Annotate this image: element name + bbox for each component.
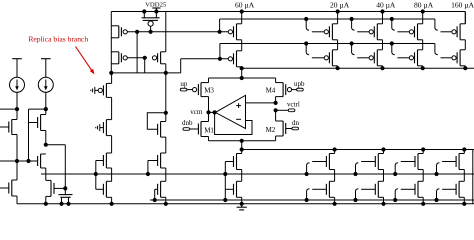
label vcm	[190, 108, 203, 116]
wire drop x144.7	[144, 58, 146, 73]
pmos P3	[152, 52, 165, 73]
wire replica node	[109, 71, 180, 75]
pmos M4	[276, 78, 292, 103]
pmos P13 160uA row2	[452, 50, 468, 70]
nmos N2 20uA row2	[326, 181, 336, 206]
svg-text:VDD25: VDD25	[145, 1, 167, 8]
power VDD25 terminal	[145, 1, 167, 11]
svg-text:20 µA: 20 µA	[330, 1, 350, 10]
ground symbol	[237, 204, 247, 210]
svg-text:60 µA: 60 µA	[235, 1, 255, 10]
pmos P1	[111, 26, 127, 38]
wire NB2 gate	[0, 187, 9, 189]
switch S3b 80uA row2	[390, 41, 410, 57]
switch S5b 20uA nmos row2	[305, 189, 327, 202]
wire opamp top edge	[209, 77, 276, 79]
wire opamp bottom edge	[209, 139, 276, 143]
pmos P6 20uA row1	[324, 9, 340, 49]
port upb	[292, 80, 305, 91]
label 20uA	[330, 1, 350, 10]
wire 60uA row2 gate line	[181, 57, 229, 73]
nmos N7 160uA row1	[456, 147, 466, 181]
wire NBIAS1 rail	[150, 199, 474, 201]
nmos N8 160uA row2	[456, 181, 466, 206]
wire NB3 gate	[29, 122, 38, 124]
wire gate line A	[127, 30, 228, 34]
wire ground rail	[17, 203, 474, 205]
pmos P4 60uA top	[228, 9, 244, 50]
switch S6a 40uA nmos row1	[353, 162, 375, 177]
svg-text:up: up	[180, 80, 188, 88]
nmos NT2 tail row2	[234, 181, 244, 206]
current source I1	[10, 59, 25, 109]
nmos N1 20uA row1	[326, 147, 336, 181]
label 80uA	[414, 1, 434, 10]
switch S7a 80uA nmos row1	[393, 162, 415, 177]
wire bias line 2	[220, 44, 435, 59]
wire amp feedback	[215, 112, 252, 134]
wire NBIAS2 rail	[41, 173, 474, 175]
pmos P10 80uA row1	[409, 9, 425, 49]
label M3	[204, 87, 214, 95]
wire left bias rail	[110, 12, 112, 73]
pmos PR replica grounded-gate	[98, 73, 111, 120]
wire NB2 drain up	[16, 161, 18, 180]
port dn	[286, 119, 300, 130]
wire vctrl tap	[274, 108, 295, 112]
nmos NB2 colA lower	[9, 180, 17, 196]
ground at PR gate	[91, 87, 98, 94]
svg-text:M4: M4	[266, 87, 276, 95]
pmos P11 80uA row2	[409, 50, 425, 70]
switch S1a 20uA row1	[304, 17, 324, 32]
nmos NB4 colB mid	[38, 154, 46, 180]
wire CS1 node	[0, 107, 19, 120]
switch S3a 80uA row1	[390, 17, 410, 32]
label 40uA	[376, 1, 396, 10]
svg-text:160 µA: 160 µA	[451, 1, 474, 10]
svg-text:Replica bias branch: Replica bias branch	[28, 34, 88, 43]
label M4	[266, 87, 276, 95]
pmos P7 20uA row2	[324, 50, 340, 70]
svg-text:upb: upb	[294, 80, 305, 88]
label 60uA	[235, 1, 255, 10]
pmos M3	[193, 78, 209, 112]
wire drain bus bottom	[242, 149, 474, 151]
switch S4a 160uA row1	[435, 19, 452, 32]
nmos NA replica cascode	[103, 120, 111, 153]
svg-text:dn: dn	[292, 119, 300, 127]
wire NG gate tie	[153, 189, 158, 202]
mos-cap C1 on VDD	[142, 9, 160, 33]
nmos N4 40uA row2	[375, 181, 385, 206]
label M2	[266, 126, 276, 134]
switch S8a 160uA nmos row1	[434, 162, 456, 177]
nmos NC diode mid	[158, 122, 166, 138]
wire NC diode loop	[147, 111, 168, 130]
nmos ND mid row1	[158, 153, 166, 181]
ground at NA gate	[96, 124, 104, 131]
label M1	[204, 126, 214, 134]
nmos NT1 tail row1	[234, 150, 242, 182]
nmos NB5 colB row2	[44, 180, 54, 206]
label vctrl	[287, 101, 300, 109]
current source I2	[38, 59, 53, 109]
nmos M2	[276, 110, 286, 141]
pmos P12 160uA row1	[452, 12, 465, 50]
svg-text:dnb: dnb	[182, 119, 193, 127]
switch S1b 20uA row2	[304, 41, 324, 57]
nmos NG colM row2	[158, 181, 168, 206]
wire ND gate tie	[146, 161, 158, 177]
wire VDD rail	[111, 11, 465, 13]
wire vcm node	[206, 110, 216, 114]
switch S6b 40uA nmos row2	[353, 189, 375, 202]
port up	[180, 80, 192, 91]
wire NB2 src to gnd	[16, 196, 18, 204]
wire NB4 drain node	[44, 143, 66, 189]
svg-text:M2: M2	[266, 126, 276, 134]
wire PMOS drain bus	[240, 66, 474, 70]
nmos NB1 left diode	[9, 120, 17, 162]
port dnb	[182, 119, 198, 130]
mos-cap C2 to ground	[59, 188, 73, 206]
wire VDD rail right end drop	[464, 12, 466, 24]
switch S2a 40uA row1	[350, 17, 370, 32]
switch S7b 80uA nmos row2	[393, 189, 415, 202]
switch S2b 40uA row2	[350, 41, 370, 57]
op-amp A1 triangle	[215, 95, 245, 128]
svg-text:80 µA: 80 µA	[414, 1, 434, 10]
switch S4b 160uA row2	[435, 44, 452, 58]
nmos NB3 colB diode	[38, 115, 46, 145]
svg-text:M3: M3	[204, 87, 214, 95]
annotation replica bias branch	[28, 34, 94, 74]
wire amp plus input	[246, 101, 278, 105]
switch S5a 20uA nmos row1	[305, 162, 327, 177]
wire NB5 gate	[54, 186, 67, 190]
switch S8b 160uA nmos row2	[434, 189, 456, 202]
nmos N6 80uA row2	[415, 181, 425, 206]
nmos N3 40uA row1	[375, 147, 385, 181]
wire 60uA drain to opamp	[240, 68, 244, 80]
wire NT gate tie	[223, 162, 233, 203]
wire gate line B left	[127, 56, 147, 60]
svg-text:vcm: vcm	[190, 108, 203, 116]
pmos P8 40uA row1	[369, 9, 385, 49]
nmos NF colL row2	[103, 181, 113, 206]
wire CS2 node	[29, 107, 48, 161]
svg-text:vctrl: vctrl	[287, 101, 300, 109]
wire bottom edge to drain bus	[240, 141, 244, 152]
nmos M1	[198, 112, 208, 140]
wire drop from gate line A	[136, 32, 138, 73]
label 160uA	[451, 1, 474, 10]
wire bias line 1	[220, 19, 435, 32]
wire NC to ND	[165, 137, 167, 153]
svg-text:M1: M1	[204, 126, 214, 134]
pmos P5 60uA bottom	[228, 51, 241, 68]
nmos N5 80uA row1	[415, 147, 425, 181]
svg-text:40 µA: 40 µA	[376, 1, 396, 10]
wire P3 drain chain	[165, 73, 167, 122]
wire P3 source to VDD	[165, 12, 167, 52]
nmos NE colL row1	[103, 153, 111, 181]
wire right edge vertical	[472, 150, 474, 204]
wire gate line bottom-left	[0, 159, 38, 163]
pmos P9 40uA row2	[369, 50, 385, 70]
wire NB1 gate	[0, 126, 9, 128]
wire colL gate tie	[94, 161, 104, 190]
pmos P2	[111, 52, 127, 64]
